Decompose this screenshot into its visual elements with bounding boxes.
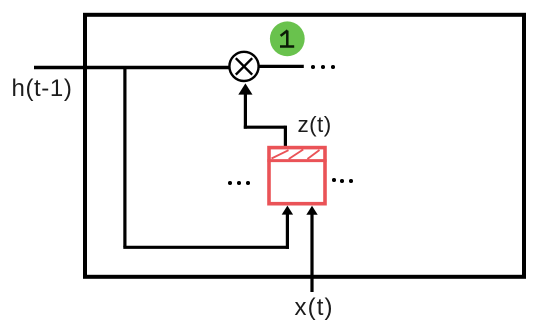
badge digit 1 xyxy=(280,30,294,46)
badge circle 1 (green) xyxy=(270,21,305,56)
wire feedback vertical from h(t-1) line xyxy=(123,66,126,247)
gate hatch slash 3 xyxy=(307,150,319,159)
ellipsis left of gate xyxy=(228,181,232,185)
gate hatch slash 2 xyxy=(289,150,304,160)
wire z(t) elbow down to gate top xyxy=(284,126,287,147)
ellipsis after multiply output xyxy=(311,65,315,69)
label x(t) xyxy=(295,296,334,320)
gate hatch slash 1 xyxy=(272,150,289,158)
multiply node cross xyxy=(236,58,252,74)
cell boundary rectangle xyxy=(85,15,524,277)
label z(t) xyxy=(298,114,332,137)
multiply node circle xyxy=(229,52,258,81)
wire z(t) vertical into multiply node xyxy=(244,92,247,129)
wire feedback bottom horizontal xyxy=(123,246,289,249)
ellipsis right of gate xyxy=(332,178,336,182)
arrowhead feedback into gate xyxy=(282,206,293,215)
gate box (red) xyxy=(269,148,325,204)
wire z(t) elbow horizontal xyxy=(244,126,286,129)
arrowhead x(t) into gate xyxy=(306,206,317,215)
wire x(t) input vertical xyxy=(310,213,313,292)
arrowhead z(t) into multiply node xyxy=(238,83,252,94)
label h(t-1) xyxy=(12,77,73,101)
wire h(t-1) input (left of multiply node) xyxy=(34,66,229,69)
wire multiply output (right of multiply node) xyxy=(259,65,304,68)
wire feedback rise into gate xyxy=(286,213,289,249)
gate hatch divider line xyxy=(267,159,326,162)
